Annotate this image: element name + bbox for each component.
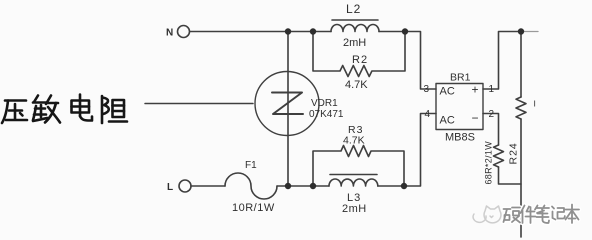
svg-text:68R*2/1W: 68R*2/1W: [484, 141, 494, 185]
terminal L: [179, 180, 191, 192]
junction top L2 right: [402, 28, 408, 34]
wire R24a to bottom node: [499, 167, 522, 184]
wire L2 to BR1 pin3: [379, 32, 436, 90]
varistor VDR1 circle: [255, 72, 319, 136]
svg-text:4.7K: 4.7K: [343, 135, 365, 147]
svg-text:+: +: [472, 83, 479, 97]
svg-text:2mH: 2mH: [342, 203, 367, 215]
char 敏: [33, 96, 60, 123]
wire R24b down and out bottom: [520, 119, 522, 237]
watermark text 硬件笔记本 halo: [504, 205, 580, 224]
varistor VDR1 branch wire: [287, 32, 289, 187]
wire L to fuse: [191, 185, 225, 187]
wire L3 to BR1 pin4: [378, 114, 436, 187]
svg-text:N: N: [166, 28, 173, 39]
svg-text:R24: R24: [508, 142, 520, 164]
watermark text 硬件笔记本: [504, 205, 580, 224]
svg-text:AC: AC: [440, 115, 455, 127]
wire stub right of top node: [521, 31, 538, 33]
svg-text:L: L: [167, 182, 173, 193]
svg-text:07K471: 07K471: [309, 109, 344, 120]
inductor L3: [329, 175, 378, 187]
wire top node down to R24b: [520, 32, 522, 98]
junction bottom varistor: [285, 183, 291, 189]
junction bottom L3 left: [310, 183, 316, 189]
svg-text:VDR1: VDR1: [311, 98, 338, 109]
big annotation text 压敏电阻 drawn as strokes: [2, 95, 127, 124]
svg-text:L2: L2: [346, 2, 361, 16]
wire fuse to L3: [277, 185, 329, 187]
svg-text:1: 1: [489, 84, 495, 95]
junction bottom L3 right: [401, 183, 407, 189]
svg-text:−: −: [472, 111, 479, 125]
varistor VDR1 symbol: [272, 93, 303, 115]
inductor L2: [331, 20, 379, 32]
junction top varistor: [285, 28, 291, 34]
svg-text:10R/1W: 10R/1W: [232, 202, 275, 214]
resistor R2 (parallel with L2): [313, 32, 405, 77]
svg-text:BR1: BR1: [450, 72, 471, 84]
svg-text:R2: R2: [352, 54, 368, 66]
svg-text:AC: AC: [440, 86, 455, 98]
watermark logo: [473, 206, 501, 223]
svg-text:4.7K: 4.7K: [345, 79, 368, 91]
svg-text:F1: F1: [245, 160, 257, 171]
wire BR1 pin1 to top node: [483, 32, 521, 90]
fuse F1: [225, 173, 277, 199]
char 压: [2, 101, 27, 124]
junction top right node: [518, 28, 524, 34]
bridge rectifier BR1 box: [436, 84, 483, 130]
char 阻: [102, 96, 127, 123]
wire BR1 pin2 down: [483, 114, 499, 146]
resistor R24a (68R*2/1W): [494, 145, 504, 167]
wire N to L2: [190, 31, 331, 33]
terminal N: [178, 26, 190, 38]
svg-text:3: 3: [424, 84, 430, 95]
junction top L2 left: [310, 28, 316, 34]
char 电: [72, 95, 93, 121]
svg-text:I: I: [534, 99, 536, 109]
svg-text:4: 4: [425, 109, 431, 120]
resistor R24b: [516, 97, 526, 119]
resistor R3 (parallel with L3): [313, 146, 404, 187]
svg-text:2: 2: [489, 109, 495, 120]
svg-text:2mH: 2mH: [343, 37, 366, 49]
svg-text:MB8S: MB8S: [445, 132, 475, 144]
annotation wire to varistor: [145, 103, 253, 105]
